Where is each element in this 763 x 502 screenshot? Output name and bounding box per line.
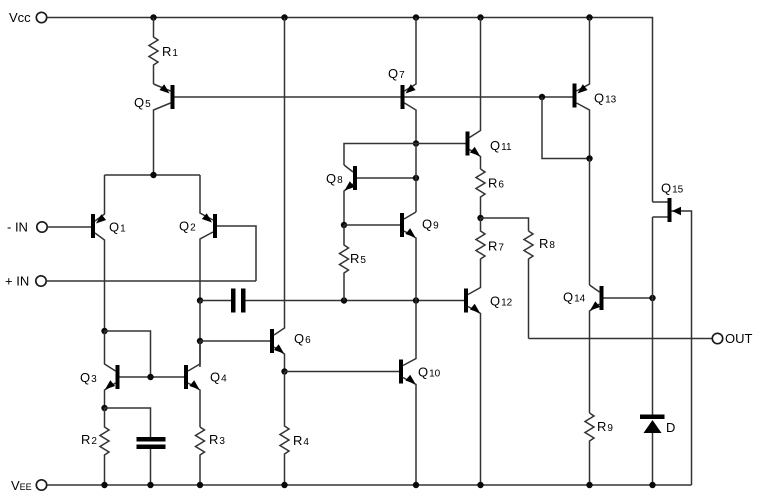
node junction R5 bottom / cap line [341,297,347,303]
wire Vee rail [47,484,692,486]
svg-text:Q9: Q9 [422,217,439,232]
node junction Q13 collector / Q14 collector [586,155,592,161]
svg-text:Q1: Q1 [109,220,126,235]
node junction Q6 emitter / R4 / Q10 base [281,368,287,374]
node junction Vcc-Q6 collector [281,14,287,20]
svg-text:Q14: Q14 [563,290,586,305]
svg-text:VEE: VEE [11,478,32,493]
wire Q2 base loop to +IN line [217,226,256,281]
transistor Q13 (PNP, diode-connected, emitter up to Vcc, collector down) [573,18,617,159]
wire R8 top tie [481,218,529,231]
svg-text:R5: R5 [350,251,366,266]
wire OUT line from R8 [529,338,713,340]
resistor R7 [476,218,504,288]
svg-text:R3: R3 [209,432,225,447]
node junction Vee-R9 [586,482,592,488]
svg-text:OUT: OUT [725,331,753,346]
svg-text:Vcc: Vcc [9,10,31,25]
node junction Vcc-Q13 emitter [586,14,592,20]
svg-text:Q4: Q4 [210,370,227,385]
Vcc terminal [9,10,47,25]
transistor Q10 (NPN, base left from Q6 emitter, collector up to cap line, emitter down) [399,301,441,486]
node junction Q14 base / Q15 source [649,295,655,301]
transistor Q1 (PNP input, base left, emitter up, collector down) [91,175,126,331]
+IN terminal [5,274,46,289]
wire Q9 collector segment [415,144,417,213]
node junction emitter rail to Q5 collector [150,172,156,178]
svg-text:Q8: Q8 [326,171,343,186]
wire Q5 base to Q7 base to Q13 base [175,96,573,98]
transistor Q7 (PNP, on common base line, emitter up to Vcc, collector down) [388,18,416,144]
wire Q6 emitter to Q10 base [285,371,400,373]
svg-text:R9: R9 [597,419,613,434]
wire Q9 base wire [344,224,400,226]
diode D [640,415,675,486]
node junction R6/R7/R8 [477,215,483,221]
wire cap line to Q12 base [344,300,464,302]
node junction Vcc-Q7 emitter [413,14,419,20]
capacitor C2 [137,437,166,485]
resistor R1 [149,18,178,85]
wire Q15 source node down to diode [652,298,654,415]
node junction Vee-C2 [147,482,153,488]
svg-text:Q2: Q2 [179,219,196,234]
svg-text:- IN: - IN [7,220,28,235]
svg-text:Q5: Q5 [134,95,151,110]
OUT terminal [712,331,752,346]
transistor Q6 (NPN, base left from Q4 collector, collector up to Vcc, emitter down) [270,18,311,372]
wire -IN to Q1 base [47,226,91,228]
svg-text:Q7: Q7 [388,66,405,81]
resistor R5 [340,225,367,301]
resistor R8 [524,231,555,339]
svg-text:Q13: Q13 [594,91,617,106]
svg-text:R8: R8 [539,236,555,251]
svg-text:Q10: Q10 [418,365,441,380]
node junction Q3/Q4 base tie [147,374,153,380]
svg-text:R2: R2 [81,432,97,447]
svg-text:+ IN: + IN [5,274,29,289]
resistor R4 [280,372,309,486]
svg-text:Q12: Q12 [490,294,513,309]
wire mirror tie from Q1 collector to Q3/Q4 base rail [105,331,151,377]
resistor R9 [585,413,613,485]
wire +IN line [46,280,256,282]
wire Q4 collector junction to Q6 base [200,340,270,342]
capacitor C1 (compensation) [200,289,344,313]
wire Q13 base-collector tie [542,97,590,159]
transistor Q11 (NPN, base left, collector up to Vcc, emitter down to R6) [466,18,512,170]
transistor Q8 (base right, collector up, emitter down to R5) [326,165,416,225]
transistor Q3 (NPN mirror, diode-connected, base right, collector up, emitter down) [80,331,120,408]
svg-text:Q15: Q15 [661,181,684,196]
node junction Vee-R2 [101,482,107,488]
svg-text:R6: R6 [488,176,504,191]
transistor Q2 (PNP input, base right, emitter up, collector down) [179,175,217,301]
node junction Q8 emitter / Q9 base / R5 [341,222,347,228]
node junction Q1 collector / Q3 collector / mirror tie [101,328,107,334]
svg-text:R7: R7 [488,239,504,254]
Vee terminal [11,478,47,493]
transistor Q5 (PNP, emitter up to R1, collector down, base right) [134,84,175,175]
node junction Q9 emitter / Q10 collector / cap line [413,297,419,303]
svg-text:D: D [666,420,675,435]
transistor Q15 (JFET-style, drain up to Vcc, source down, gate right) [653,181,692,486]
transistor Q12 (NPN, base left from cap line, collector up to R7, emitter down to Vee) [464,288,513,486]
wire Q2 collector down to Q4 collector [199,301,201,368]
node junction Vee-Q12 emitter [477,482,483,488]
node junction Q13 base tie [539,94,545,100]
node junction Q3 emitter / R2 / C2 tie [101,405,107,411]
node junction Vcc-R1 [150,14,156,20]
svg-text:Q6: Q6 [294,331,311,346]
svg-text:R4: R4 [293,433,309,448]
wire Q3 emitter tie to C2 [105,408,151,437]
node junction Vee-R4 [281,482,287,488]
node junction Q2 collector / compensation cap [197,297,203,303]
node junction Q4 collector / Q6 base [197,338,203,344]
-IN terminal [7,220,47,235]
wire Q7 collector junction to Q11 base [416,143,466,145]
node junction Q7 collector / Q8 collector / Q11 base [413,140,419,146]
wire Q3 base to Q4 base [120,376,185,378]
resistor R6 [476,169,504,218]
node junction Vcc-Q11 collector [477,14,483,20]
svg-text:Q3: Q3 [80,370,97,385]
wire Vcc rail [47,18,653,203]
node junction Vee-diode [649,482,655,488]
svg-text:R1: R1 [162,44,178,59]
transistor Q4 (NPN mirror output, base left, collector up, emitter down) [184,341,227,427]
transistor Q14 (NPN, base right, collector up to Q13, emitter down to R9) [563,285,653,413]
wire Q13 collector to Q14 collector [589,159,591,286]
svg-text:Q11: Q11 [490,138,512,153]
resistor R2 [81,408,109,485]
wire Q8 collector loop [344,144,416,166]
resistor R3 [196,427,226,485]
wire Q1/Q2 emitter rail [105,174,201,176]
node junction Vee-Q10 emitter [413,482,419,488]
node junction Vee-R3 [197,482,203,488]
transistor Q9 (NPN, base left, collector up, emitter down) [400,212,439,301]
node junction Q8 base / Q9 collector [413,175,419,181]
